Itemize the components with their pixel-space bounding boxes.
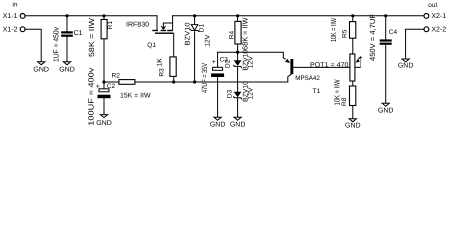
- wire C4 bottom lead: [385, 45, 387, 103]
- resistor R4: [229, 17, 250, 50]
- resistor R8: [333, 79, 356, 106]
- svg-text:R2: R2: [112, 73, 121, 80]
- wire C4 top lead: [385, 16, 387, 40]
- wire D1 bottom lead: [194, 32, 196, 82]
- wire D2 top lead: [237, 52, 239, 60]
- wire D2-D3 middle lead: [237, 67, 239, 92]
- wire D3 bottom lead: [237, 98, 239, 117]
- diode D2 (zener BZV10): [225, 50, 255, 71]
- node R4/rail: [236, 14, 239, 17]
- wire T1 base lead: [293, 66, 360, 68]
- wire C2 bottom lead: [103, 98, 105, 114]
- terminal X1-2: [20, 27, 25, 32]
- wire bus right of R2: [135, 81, 288, 83]
- svg-text:1UF = 450v: 1UF = 450v: [52, 27, 61, 62]
- svg-text:GND: GND: [230, 122, 246, 129]
- svg-text:IRF830: IRF830: [126, 22, 149, 29]
- wire R4 bottom lead: [237, 44, 239, 52]
- wire Q1 body-source connector: [163, 22, 172, 24]
- svg-text:R8: R8: [341, 97, 348, 106]
- svg-text:10K = IIW: 10K = IIW: [333, 79, 342, 106]
- capacitor C4: [368, 14, 398, 61]
- svg-text:GND: GND: [33, 67, 49, 74]
- svg-text:450V = 4,7UF: 450V = 4,7UF: [368, 14, 377, 61]
- wire R5 top lead: [352, 16, 354, 22]
- terminal X2-1: [424, 14, 429, 19]
- wire C3 top lead: [217, 52, 219, 67]
- svg-text:X2-2: X2-2: [431, 27, 446, 34]
- svg-text:X1-2: X1-2: [3, 27, 18, 34]
- svg-text:GND: GND: [398, 63, 414, 70]
- svg-text:R1: R1: [107, 21, 114, 30]
- svg-text:12V: 12V: [248, 87, 255, 100]
- svg-text:Q1: Q1: [147, 42, 156, 49]
- node R4/D2/gate wire: [236, 51, 239, 54]
- node C1/rail: [65, 14, 68, 17]
- svg-text:47UF = 35V: 47UF = 35V: [200, 63, 209, 93]
- svg-text:T1: T1: [313, 88, 321, 95]
- ground under C1: [59, 62, 75, 74]
- wire R4 top lead: [237, 16, 239, 22]
- ground under C2: [96, 115, 112, 127]
- svg-text:POT1 = 470: POT1 = 470: [310, 62, 349, 69]
- svg-text:GND: GND: [378, 108, 394, 115]
- potentiometer POT1: [310, 54, 362, 81]
- ground under X2-2: [398, 59, 414, 70]
- wire C1 bottom lead: [66, 37, 68, 62]
- wire Q1 gate lead: [173, 34, 175, 57]
- wire C3 bottom lead to ground: [217, 77, 219, 117]
- ground under D3: [230, 117, 246, 128]
- transistor T1 (MPSA42): [283, 58, 320, 95]
- svg-text:12V: 12V: [247, 56, 254, 69]
- svg-text:GND: GND: [96, 120, 112, 127]
- svg-text:15K = IIW: 15K = IIW: [120, 92, 151, 99]
- diode D1 (zener BZV10): [185, 22, 212, 46]
- wire R5 to POT1: [352, 38, 354, 54]
- wire R1 bottom lead: [103, 39, 105, 82]
- capacitor C1: [52, 27, 83, 62]
- svg-text:D1: D1: [198, 24, 205, 33]
- wire bus left of R2: [104, 81, 119, 83]
- svg-text:C2: C2: [107, 83, 116, 90]
- ground under R8: [345, 119, 361, 130]
- svg-text:+: +: [212, 59, 216, 66]
- svg-text:10K = IIW: 10K = IIW: [329, 17, 338, 42]
- svg-text:R4: R4: [229, 30, 236, 39]
- node D1/rail: [193, 14, 196, 17]
- svg-text:68K = IIW: 68K = IIW: [241, 17, 250, 50]
- svg-text:C1: C1: [74, 30, 83, 37]
- svg-text:12V: 12V: [204, 34, 211, 47]
- wire X1-2 to ground: [25, 29, 41, 62]
- ground under X1-2: [33, 62, 49, 74]
- node R5/rail: [351, 14, 354, 17]
- ground under C3: [210, 117, 226, 128]
- wire gate node horizontal: [218, 52, 284, 58]
- wire C2 top lead: [103, 82, 105, 89]
- terminal X1-1: [20, 14, 25, 19]
- wire D1 top lead: [194, 16, 196, 25]
- node D1/bus: [193, 80, 196, 83]
- svg-text:out: out: [428, 2, 437, 9]
- node C4/rail: [384, 14, 387, 17]
- svg-text:GND: GND: [345, 123, 361, 130]
- diode D3 (zener BZV10): [227, 81, 255, 102]
- wire Q1 drain lead: [156, 16, 158, 30]
- node R1/rail: [102, 14, 105, 17]
- svg-text:MPSA42: MPSA42: [295, 75, 320, 82]
- wire X2-2 to ground: [406, 29, 424, 59]
- resistor R3: [157, 57, 177, 77]
- svg-text:C4: C4: [389, 29, 398, 36]
- resistor R2: [112, 73, 151, 100]
- svg-text:D3: D3: [227, 89, 234, 98]
- node R1/C2/bus: [102, 80, 105, 83]
- svg-text:R3: R3: [159, 68, 166, 77]
- wire R3 bottom lead: [173, 76, 175, 82]
- wire C1 top lead: [66, 16, 68, 31]
- capacitor C2 (electrolytic): [87, 67, 116, 125]
- svg-text:58K = IIW: 58K = IIW: [87, 17, 96, 57]
- terminal X2-2: [424, 27, 429, 32]
- wire POT1 to R8: [352, 81, 354, 86]
- resistor R1: [87, 17, 114, 57]
- capacitor C3 (electrolytic 47UF): [200, 57, 228, 93]
- ground under C4: [378, 103, 394, 114]
- svg-text:BZV10: BZV10: [185, 22, 192, 45]
- svg-text:GND: GND: [59, 67, 75, 74]
- svg-text:D2: D2: [225, 59, 232, 68]
- resistor R5: [329, 17, 356, 42]
- transistor Q1 (MOSFET IRF830): [126, 22, 174, 50]
- wire T1 collector lead: [288, 74, 291, 82]
- wire R8 bottom lead: [352, 105, 354, 118]
- svg-text:100UF = 400v: 100UF = 400v: [87, 67, 96, 125]
- wire top rail output segment: [173, 15, 424, 17]
- svg-text:X2-1: X2-1: [431, 13, 446, 20]
- wire Q1 source lead: [172, 16, 174, 30]
- node R3/bus: [172, 80, 175, 83]
- svg-text:1K: 1K: [157, 58, 164, 67]
- svg-text:X1-1: X1-1: [3, 13, 18, 20]
- wire R1 top lead: [103, 16, 105, 20]
- svg-text:GND: GND: [210, 122, 226, 129]
- svg-text:R5: R5: [342, 29, 349, 38]
- svg-text:in: in: [12, 2, 17, 9]
- wire top rail input segment: [25, 15, 157, 17]
